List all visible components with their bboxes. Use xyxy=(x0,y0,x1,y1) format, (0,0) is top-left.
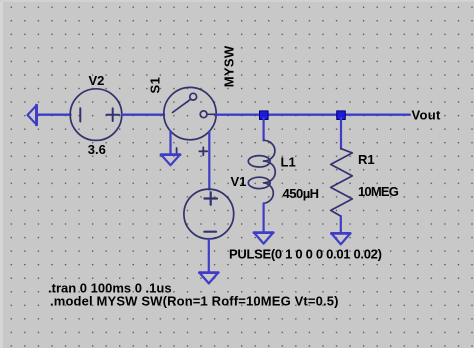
ground below R1 xyxy=(331,233,350,244)
plus mark of S1 xyxy=(199,147,207,155)
junction node R1 xyxy=(337,111,346,120)
svg-text:450µH: 450µH xyxy=(283,186,319,201)
voltage source V2 xyxy=(70,89,122,141)
svg-text:10MEG: 10MEG xyxy=(358,184,399,199)
voltage source V1 xyxy=(184,189,234,239)
wire V1 to ground xyxy=(208,239,210,272)
wire xyxy=(37,113,71,115)
wire switch plus stub to V1 xyxy=(208,132,210,190)
wire L1 to ground xyxy=(263,203,265,232)
ground below L1 xyxy=(254,233,273,244)
ground below V1 xyxy=(199,273,218,284)
junction node L1 xyxy=(260,111,269,120)
svg-text:MYSW: MYSW xyxy=(222,45,237,87)
wire R1 to ground xyxy=(340,216,342,233)
svg-text:S1: S1 xyxy=(148,77,163,94)
wire junction to L1 xyxy=(263,118,265,140)
inductor L1 xyxy=(248,140,275,203)
svg-text:V1: V1 xyxy=(231,174,247,189)
svg-text:PULSE(0 1 0 0 0 0.01 0.02): PULSE(0 1 0 0 0 0.01 0.02) xyxy=(229,247,382,262)
svg-text:L1: L1 xyxy=(281,155,296,170)
svg-text:V2: V2 xyxy=(89,73,105,88)
ground below switch xyxy=(161,155,180,166)
svg-text:3.6: 3.6 xyxy=(88,142,106,157)
wire switch to Vout rail xyxy=(216,113,409,115)
wire junction to R1 xyxy=(340,118,342,149)
switch S1 xyxy=(164,87,217,139)
resistor R1 xyxy=(331,149,353,217)
svg-text:R1: R1 xyxy=(358,152,375,167)
wire xyxy=(122,113,164,115)
svg-text:.model MYSW SW(Ron=1 Roff=10ME: .model MYSW SW(Ron=1 Roff=10MEG Vt=0.5) xyxy=(50,294,339,309)
minus mark of S1 xyxy=(176,148,178,154)
wire switch minus stub xyxy=(169,131,171,154)
ground flag left (rotated ground at net) xyxy=(28,105,37,124)
svg-text:Vout: Vout xyxy=(412,108,441,123)
